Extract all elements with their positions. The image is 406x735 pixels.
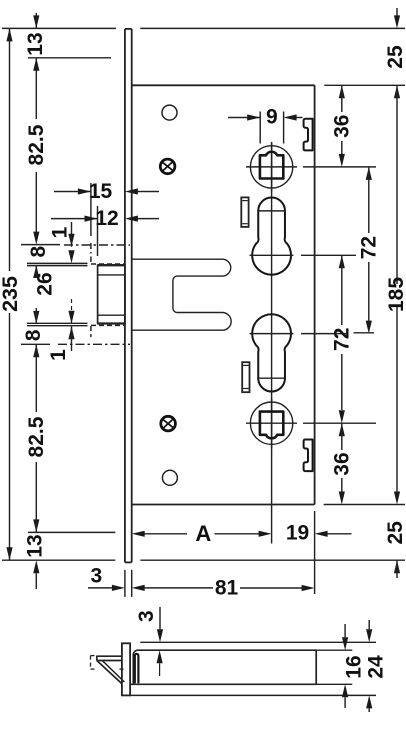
svg-text:13: 13 (24, 32, 47, 55)
svg-text:1: 1 (47, 349, 70, 361)
svg-text:8: 8 (27, 245, 50, 257)
svg-text:15: 15 (89, 180, 113, 203)
svg-text:26: 26 (34, 272, 57, 295)
svg-text:A: A (195, 521, 211, 546)
svg-text:19: 19 (286, 521, 309, 544)
svg-text:13: 13 (23, 534, 46, 557)
svg-text:36: 36 (330, 452, 353, 475)
svg-text:1: 1 (49, 226, 72, 238)
svg-text:82.5: 82.5 (25, 416, 48, 457)
svg-text:81: 81 (215, 577, 239, 600)
svg-text:16: 16 (342, 655, 365, 678)
svg-text:235: 235 (0, 276, 22, 312)
svg-text:3: 3 (90, 564, 102, 587)
svg-text:3: 3 (135, 610, 158, 622)
svg-text:185: 185 (385, 277, 406, 312)
svg-text:9: 9 (266, 105, 278, 128)
svg-text:24: 24 (365, 655, 388, 679)
svg-text:25: 25 (384, 45, 406, 69)
svg-text:72: 72 (330, 328, 353, 351)
svg-text:12: 12 (95, 207, 118, 230)
svg-text:25: 25 (384, 521, 406, 545)
svg-text:72: 72 (357, 236, 380, 259)
svg-text:82.5: 82.5 (25, 124, 48, 165)
svg-text:36: 36 (330, 115, 353, 138)
svg-text:8: 8 (22, 329, 45, 341)
